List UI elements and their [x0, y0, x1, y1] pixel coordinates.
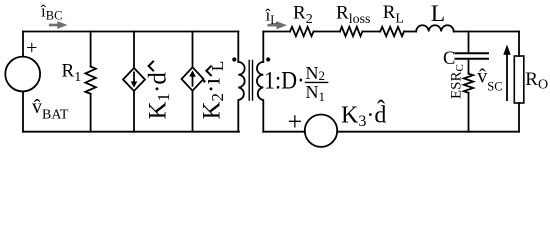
svg-text:RO: RO: [525, 69, 548, 93]
svg-text:îL: îL: [265, 6, 278, 27]
resistor RO box: [514, 56, 524, 103]
wire capacitor branch top: [468, 32, 470, 53]
wire: [454, 31, 519, 33]
wire: [314, 31, 340, 33]
source K3: [305, 115, 337, 147]
wire RO branch top: [518, 32, 520, 57]
svg-text:îBC: îBC: [40, 2, 62, 23]
inductor L: [416, 25, 454, 31]
svg-text:v̂SC: v̂SC: [477, 66, 502, 94]
hat of d K1: [149, 61, 154, 71]
fraction bar: [305, 81, 329, 83]
transformer core: [249, 61, 252, 101]
current arrow iL gray: [268, 21, 288, 29]
wire R1 branch top: [90, 32, 92, 67]
wire bottom rail primary: [23, 131, 239, 133]
resistor Rloss: [340, 27, 363, 36]
svg-text:1:D·: 1:D·: [264, 67, 305, 94]
wire left vertical below source: [22, 91, 24, 131]
svg-text:+: +: [288, 107, 303, 136]
resistor R2: [290, 27, 314, 36]
resistor RL: [380, 27, 404, 36]
wire K2 branch bottom: [192, 91, 194, 132]
K1 arrow down: [131, 72, 138, 88]
transformer dot primary: [232, 57, 236, 61]
svg-text:K1·d: K1·d: [145, 72, 174, 120]
svg-text:N2: N2: [306, 63, 326, 83]
svg-text:Rloss: Rloss: [336, 3, 370, 28]
svg-text:R1: R1: [62, 61, 82, 86]
wire: [468, 60, 470, 74]
K2 arrow up: [189, 70, 196, 86]
dependent source K1 diamond: [123, 68, 145, 91]
svg-text:RL: RL: [383, 2, 404, 27]
wire left vertical above source: [22, 32, 24, 57]
wire K1 branch bottom: [133, 91, 135, 132]
transformer primary winding: [238, 32, 244, 132]
wire top rail primary: [23, 31, 238, 33]
svg-text:L: L: [431, 1, 445, 27]
wire bottom rail secondary left of K3: [263, 131, 305, 133]
svg-text:v̂BAT: v̂BAT: [32, 96, 69, 123]
wire bottom rail secondary right of K3: [337, 131, 519, 133]
hat of i K2: [206, 66, 211, 76]
wire K1 branch top: [133, 32, 135, 69]
resistor ESRC: [464, 74, 473, 93]
current arrow iBC gray: [49, 21, 68, 29]
wire top rail secondary segments: [263, 31, 290, 33]
vSC arrow up: [503, 45, 510, 102]
svg-text:R2: R2: [293, 3, 313, 28]
svg-text:K2·iL: K2·iL: [199, 61, 228, 120]
voltage source V_BAT: [5, 57, 40, 92]
wire: [362, 31, 380, 33]
svg-text:ESRC: ESRC: [449, 64, 467, 99]
transformer secondary winding: [257, 32, 263, 132]
wire: [404, 31, 416, 33]
wire K2 branch top: [192, 32, 194, 68]
svg-text:K3·d̂: K3·d̂: [341, 100, 386, 130]
capacitor C plates: [456, 53, 489, 58]
svg-text:N1: N1: [306, 82, 326, 104]
wire RO branch bottom: [518, 103, 520, 132]
dependent source K2 diamond: [182, 67, 204, 90]
transformer dot secondary: [266, 57, 270, 61]
resistor R1: [85, 67, 95, 94]
wire: [468, 93, 470, 132]
svg-text:+: +: [26, 37, 37, 59]
wire R1 branch bottom: [90, 94, 92, 132]
